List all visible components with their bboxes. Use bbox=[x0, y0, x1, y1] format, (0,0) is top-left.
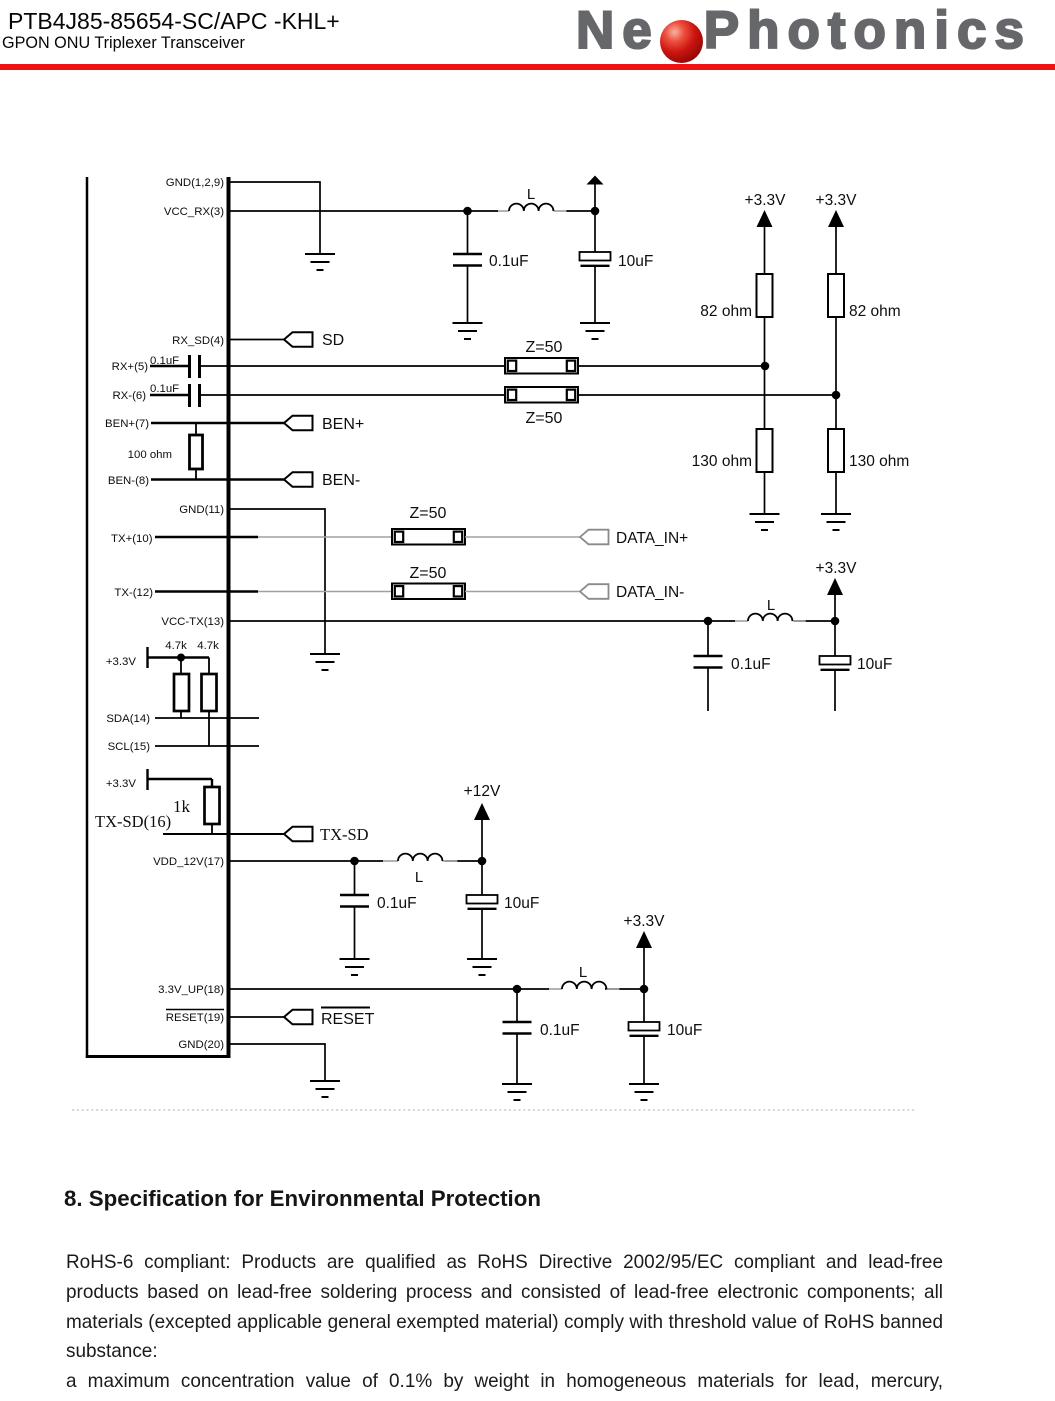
node junction L1/C2 bbox=[591, 207, 600, 216]
supply arrow +3.3V at VCC-TX bbox=[827, 578, 843, 595]
svg-text:RESET: RESET bbox=[321, 1011, 375, 1028]
supply arrow +12V bbox=[474, 803, 490, 820]
svg-text:VDD_12V(17): VDD_12V(17) bbox=[153, 856, 224, 868]
svg-text:0.1uF: 0.1uF bbox=[731, 656, 771, 673]
inductor L4 bbox=[562, 982, 606, 989]
svg-text:TX-(12): TX-(12) bbox=[114, 587, 153, 599]
wire R6 bottom stub bbox=[180, 711, 182, 718]
svg-text:10uF: 10uF bbox=[667, 1022, 702, 1039]
wire C9 vertical bbox=[516, 989, 518, 1084]
ground at R4 bbox=[821, 514, 851, 530]
svg-text:+3.3V: +3.3V bbox=[816, 560, 858, 577]
wire GND(11) to ground bbox=[230, 509, 325, 654]
svg-text:+3.3V: +3.3V bbox=[106, 656, 136, 668]
svg-text:4.7k: 4.7k bbox=[197, 640, 219, 652]
node junction L4/C10 bbox=[640, 985, 649, 994]
transmission line Z3 Z=50 bbox=[392, 529, 465, 545]
inductor L1 bbox=[509, 204, 553, 211]
supply arrow +3.3V right divider bbox=[828, 210, 844, 227]
resistor R1 82 ohm bbox=[757, 274, 773, 317]
wire R5 top stub bbox=[195, 423, 197, 435]
capacitor C1 0.1uF bbox=[453, 254, 482, 266]
svg-text:BEN+(7): BEN+(7) bbox=[105, 418, 149, 430]
wire VCC_RX rail bbox=[230, 210, 595, 212]
svg-text:DATA_IN-: DATA_IN- bbox=[616, 584, 684, 601]
wire C6 vertical bbox=[834, 621, 836, 711]
node junction VCC-TX/C5 bbox=[704, 617, 713, 626]
wire Z3 to DATA_IN+ bbox=[465, 536, 580, 538]
wire GND(20) to ground bbox=[230, 1044, 325, 1081]
svg-text:SD: SD bbox=[322, 332, 344, 349]
svg-text:L: L bbox=[415, 869, 423, 886]
resistor R6 4.7k bbox=[174, 674, 189, 711]
svg-text:10uF: 10uF bbox=[618, 253, 653, 270]
svg-text:RX-(6): RX-(6) bbox=[112, 390, 146, 402]
capacitor C6 10uF bbox=[820, 656, 851, 670]
IC U1 left edge bbox=[86, 177, 89, 1058]
wire TX- stub bbox=[155, 590, 258, 593]
wire arrow to node bbox=[834, 594, 836, 621]
svg-text:0.1uF: 0.1uF bbox=[377, 895, 417, 912]
wire C5 vertical bbox=[707, 621, 709, 711]
supply arrow (small) bbox=[587, 176, 604, 185]
wire C2 vertical bbox=[594, 211, 596, 323]
svg-text:Z=50: Z=50 bbox=[526, 339, 563, 356]
header title line 1 bbox=[8, 8, 340, 35]
ground at GND(1,2,9) bbox=[305, 254, 335, 270]
resistor R3 82 ohm bbox=[828, 274, 844, 317]
svg-text:+3.3V: +3.3V bbox=[745, 192, 787, 209]
connector TX-SD bbox=[284, 827, 313, 842]
connector BEN- bbox=[284, 472, 313, 487]
wire SCL bbox=[155, 745, 259, 747]
svg-text:GND(11): GND(11) bbox=[179, 504, 224, 516]
svg-text:L: L bbox=[527, 186, 535, 203]
wire pin1 GND to ground bbox=[230, 182, 320, 254]
svg-text:10uF: 10uF bbox=[857, 656, 892, 673]
svg-text:VCC_RX(3): VCC_RX(3) bbox=[164, 206, 224, 218]
wire arrow to R1 bbox=[764, 226, 766, 274]
wire node to R2 bbox=[764, 366, 766, 429]
wire gray coil leads L2 bbox=[735, 620, 806, 622]
node junction L2/C6 bbox=[831, 617, 840, 626]
wire RX_SD bbox=[230, 339, 284, 341]
wire TX-SD bbox=[163, 833, 284, 835]
resistor R7 4.7k bbox=[202, 674, 217, 711]
wire TX- gray to Z4 bbox=[258, 591, 392, 593]
svg-text:130 ohm: 130 ohm bbox=[692, 453, 752, 470]
resistor R5 100 ohm bbox=[190, 435, 203, 469]
wire Z1 to divider node bbox=[578, 365, 765, 367]
transmission line Z1 Z=50 bbox=[505, 358, 578, 374]
svg-text:RX_SD(4): RX_SD(4) bbox=[172, 335, 224, 347]
inductor L3 bbox=[398, 854, 442, 861]
svg-text:Z=50: Z=50 bbox=[410, 565, 447, 582]
capacitor C3 coupling plates bbox=[190, 355, 200, 378]
wire R4 to ground bbox=[835, 472, 837, 514]
ground at R2 bbox=[750, 514, 780, 530]
NeoPhotonics logo bbox=[576, 4, 1032, 63]
wire gray coil leads L1 bbox=[498, 210, 567, 212]
svg-text:0.1uF: 0.1uF bbox=[540, 1022, 580, 1039]
wire SDA bbox=[155, 717, 259, 719]
supply arrow +3.3V at 3.3V_UP bbox=[636, 931, 652, 948]
pin label RESET(19) overline bbox=[166, 1009, 224, 1011]
svg-text:GND(1,2,9): GND(1,2,9) bbox=[166, 177, 224, 189]
node junction RX-/divider bbox=[832, 391, 841, 400]
supply tee bar TX-SD bbox=[148, 769, 213, 790]
svg-text:SCL(15): SCL(15) bbox=[108, 741, 151, 753]
wire gray coil leads L3 bbox=[383, 860, 457, 862]
svg-text:4.7k: 4.7k bbox=[165, 640, 187, 652]
svg-text:L: L bbox=[579, 964, 587, 981]
wire 3.3V_UP rail bbox=[230, 988, 644, 990]
svg-text:+3.3V: +3.3V bbox=[816, 192, 858, 209]
svg-text:DATA_IN+: DATA_IN+ bbox=[616, 530, 688, 547]
svg-text:+3.3V: +3.3V bbox=[624, 913, 666, 930]
capacitor C8 10uF bbox=[467, 895, 498, 909]
node junction R6 top bbox=[177, 654, 185, 662]
supply tee bar bbox=[148, 647, 210, 668]
node junction RX+/divider bbox=[761, 362, 770, 371]
capacitor C2 10uF bbox=[580, 252, 611, 266]
node junction VDD/C7 bbox=[350, 857, 359, 866]
section heading bbox=[64, 1186, 541, 1212]
connector BEN+ bbox=[284, 416, 313, 431]
svg-text:10uF: 10uF bbox=[504, 895, 539, 912]
wire RX+ left stub bbox=[150, 365, 188, 368]
svg-text:+12V: +12V bbox=[464, 783, 501, 800]
capacitor C10 10uF bbox=[629, 1022, 660, 1036]
svg-text:RESET(19): RESET(19) bbox=[166, 1012, 224, 1024]
ground at C2 bbox=[580, 323, 610, 339]
IC U1 bottom edge bbox=[86, 1055, 231, 1058]
wire Z2 to divider node bbox=[578, 394, 836, 396]
capacitor C5 0.1uF bbox=[694, 656, 723, 668]
inductor L2 bbox=[748, 614, 792, 621]
wire VCC-TX rail bbox=[230, 620, 835, 622]
node junction 3.3V_UP/C9 bbox=[513, 985, 522, 994]
ground at C1 bbox=[453, 323, 483, 339]
wire RESET bbox=[230, 1016, 284, 1018]
wire R2 to ground bbox=[764, 472, 766, 514]
connector DATA_IN+ bbox=[580, 530, 609, 545]
wire RX- left stub bbox=[150, 394, 188, 397]
svg-text:RX+(5): RX+(5) bbox=[112, 361, 149, 373]
svg-text:TX-SD(16): TX-SD(16) bbox=[95, 812, 171, 831]
svg-text:GND(20): GND(20) bbox=[178, 1039, 224, 1051]
wire arrow to node bbox=[643, 947, 645, 989]
wire BEN- bbox=[151, 478, 284, 480]
connector RESET bbox=[284, 1010, 313, 1025]
svg-text:BEN-(8): BEN-(8) bbox=[108, 475, 149, 487]
svg-text:3.3V_UP(18): 3.3V_UP(18) bbox=[158, 984, 224, 996]
IC U1 right edge (pin side) bbox=[227, 177, 231, 1058]
svg-text:L: L bbox=[767, 597, 775, 614]
wire TX+ gray to Z3 bbox=[258, 536, 392, 538]
supply arrow stub at C2 bbox=[594, 184, 596, 211]
svg-text:82 ohm: 82 ohm bbox=[700, 303, 752, 320]
svg-text:BEN-: BEN- bbox=[322, 472, 360, 489]
resistor R2 130 ohm bbox=[757, 429, 773, 472]
svg-text:0.1uF: 0.1uF bbox=[489, 253, 529, 270]
svg-text:TX-SD: TX-SD bbox=[320, 825, 369, 844]
dotted separator line bbox=[72, 1109, 915, 1111]
svg-text:1k: 1k bbox=[173, 797, 191, 816]
wire Z4 to DATA_IN- bbox=[465, 591, 580, 593]
ground at C10 bbox=[629, 1084, 659, 1100]
capacitor C7 0.1uF bbox=[340, 895, 369, 907]
svg-text:0.1uF: 0.1uF bbox=[150, 383, 179, 395]
capacitor C4 coupling plates bbox=[190, 384, 200, 407]
supply arrow +3.3V left divider bbox=[757, 210, 773, 227]
wire C8 vertical bbox=[481, 861, 483, 959]
connector SD bbox=[284, 332, 313, 347]
svg-text:Z=50: Z=50 bbox=[526, 410, 563, 427]
node junction VCC_RX/C1 bbox=[463, 207, 472, 216]
wire TX+ stub bbox=[155, 536, 258, 539]
wire arrow to node bbox=[481, 819, 483, 861]
wire RX+ to Z1 bbox=[201, 365, 505, 367]
ground at C8 bbox=[467, 959, 497, 975]
wire BEN+ bbox=[151, 422, 284, 424]
wire C10 vertical bbox=[643, 989, 645, 1084]
svg-text:Z=50: Z=50 bbox=[410, 505, 447, 522]
svg-text:82 ohm: 82 ohm bbox=[849, 303, 901, 320]
ground at GND(11) bbox=[310, 654, 340, 670]
wire RX- to Z2 bbox=[201, 394, 505, 396]
wire R8 bottom stub bbox=[211, 824, 213, 834]
ground at C9 bbox=[502, 1084, 532, 1100]
wire node to R4 bbox=[835, 395, 837, 429]
svg-text:+3.3V: +3.3V bbox=[106, 778, 136, 790]
wire gray coil leads L4 bbox=[549, 988, 619, 990]
wire R7 bottom stub bbox=[208, 711, 210, 746]
wire C1 vertical bbox=[467, 211, 469, 323]
svg-text:100 ohm: 100 ohm bbox=[128, 449, 172, 461]
wire C7 vertical bbox=[354, 861, 356, 959]
ground at C7 bbox=[340, 959, 370, 975]
resistor R4 130 ohm bbox=[828, 429, 844, 472]
ground at GND(20) bbox=[310, 1081, 340, 1097]
label RESET overline bbox=[321, 1007, 370, 1009]
svg-text:VCC-TX(13): VCC-TX(13) bbox=[161, 616, 224, 628]
svg-text:SDA(14): SDA(14) bbox=[106, 713, 150, 725]
node junction L3/C8 bbox=[478, 857, 487, 866]
transmission line Z2 Z=50 bbox=[505, 387, 578, 403]
red header rule bbox=[0, 64, 1055, 70]
wire R1 to node bbox=[764, 317, 766, 366]
connector DATA_IN- bbox=[580, 584, 609, 599]
wire VDD_12V rail bbox=[230, 860, 482, 862]
capacitor C9 0.1uF bbox=[503, 1022, 532, 1034]
header title line 2 bbox=[2, 34, 245, 53]
wire R3 to node bbox=[835, 317, 837, 395]
svg-text:130 ohm: 130 ohm bbox=[849, 453, 909, 470]
resistor R8 1k bbox=[205, 787, 220, 824]
svg-text:BEN+: BEN+ bbox=[322, 416, 364, 433]
transmission line Z4 Z=50 bbox=[392, 584, 465, 600]
wire arrow to R3 bbox=[835, 226, 837, 274]
wire R7 top stub bbox=[208, 658, 210, 675]
wire R5 bottom stub bbox=[195, 469, 197, 480]
body paragraph bbox=[66, 1248, 943, 1397]
svg-text:TX+(10): TX+(10) bbox=[111, 533, 153, 545]
wire R6 top stub bbox=[180, 658, 182, 675]
